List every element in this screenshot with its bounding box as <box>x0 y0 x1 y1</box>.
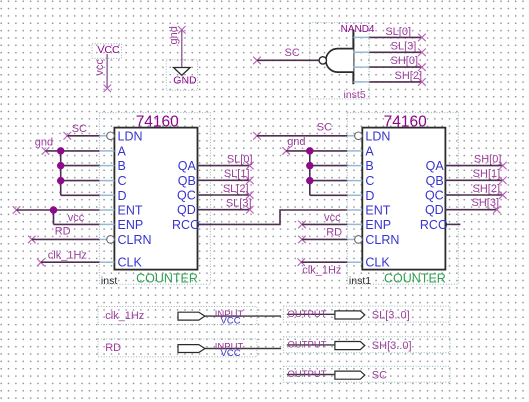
nand gate inst5 (NAND4, mirrored) <box>310 23 375 101</box>
svg-text:C: C <box>365 174 374 188</box>
node RD at U2 CLRN <box>298 226 347 243</box>
junction dot U1 A <box>57 147 64 155</box>
output pin SL[3..0] <box>283 306 450 322</box>
output pin SH[3..0] <box>283 337 450 353</box>
svg-text:SC: SC <box>372 370 387 382</box>
node RD at U1 CLRN <box>28 226 99 244</box>
input pin RD <box>98 339 281 359</box>
svg-text:VCC: VCC <box>97 44 120 56</box>
svg-text:OUTPUT: OUTPUT <box>288 369 327 380</box>
svg-text:RCO: RCO <box>172 218 200 232</box>
svg-text:SL[1]: SL[1] <box>224 168 250 180</box>
svg-text:inst5: inst5 <box>344 89 366 101</box>
svg-text:NAND4: NAND4 <box>341 24 375 35</box>
svg-text:A: A <box>118 144 127 158</box>
junction dot U1 ENT <box>50 206 58 214</box>
svg-text:QC: QC <box>177 189 196 203</box>
svg-text:SL[3..0]: SL[3..0] <box>372 310 410 322</box>
node clk_1Hz at U1 CLK <box>37 249 99 266</box>
node SH[0] wire at NAND input 3 <box>369 55 425 71</box>
svg-text:B: B <box>118 159 126 173</box>
wire U1 RCO to U2 ENT <box>198 210 348 224</box>
svg-text:CLRN: CLRN <box>365 233 399 247</box>
svg-text:ENP: ENP <box>118 218 144 232</box>
svg-text:SH[0]: SH[0] <box>474 153 502 165</box>
node SH[2] at U2 QC <box>445 183 506 199</box>
svg-text:vcc: vcc <box>68 212 85 224</box>
node SL[1] at U1 QB <box>198 168 254 184</box>
svg-text:CLRN: CLRN <box>118 233 152 247</box>
svg-text:ENT: ENT <box>365 204 390 218</box>
svg-text:SH[2]: SH[2] <box>472 183 500 195</box>
junction dot U1 B <box>57 162 64 170</box>
wire U2 pin B <box>310 165 348 167</box>
svg-text:VCC: VCC <box>221 316 241 327</box>
svg-text:ENP: ENP <box>365 218 391 232</box>
svg-text:SC: SC <box>72 123 87 135</box>
node SH[3] at U2 QD <box>445 197 500 214</box>
svg-text:A: A <box>365 144 374 158</box>
svg-text:gnd: gnd <box>35 137 53 149</box>
svg-text:RCO: RCO <box>420 218 448 232</box>
svg-text:LDN: LDN <box>118 129 143 143</box>
node SL[3] wire at NAND input 2 <box>369 41 425 57</box>
svg-text:gnd: gnd <box>287 136 305 148</box>
node gnd at U2 A <box>282 136 347 155</box>
svg-text:vcc: vcc <box>324 212 341 224</box>
svg-text:VCC: VCC <box>221 348 241 359</box>
node vcc at U2 ENP <box>298 212 347 228</box>
wire U1 pin C <box>61 180 100 182</box>
node SH[1] at U2 QB <box>445 168 506 184</box>
svg-text:vcc: vcc <box>94 59 106 76</box>
wire U1 ENP (vcc net) <box>54 210 100 224</box>
svg-text:inst1: inst1 <box>349 275 371 287</box>
svg-text:GND: GND <box>173 74 197 86</box>
svg-text:gnd: gnd <box>168 26 180 44</box>
svg-text:SL[2]: SL[2] <box>223 183 249 195</box>
counter U2 74160 (inst1) symbol body <box>347 113 460 287</box>
svg-text:SH[3..0]: SH[3..0] <box>372 340 412 352</box>
svg-text:SL[0]: SL[0] <box>385 26 411 38</box>
node SC at U2 LDN <box>253 121 347 139</box>
svg-text:clk_1Hz: clk_1Hz <box>105 310 144 322</box>
node SL[0] at U1 QA <box>198 153 254 169</box>
svg-text:COUNTER: COUNTER <box>136 271 198 285</box>
wire U2 RCO stub <box>445 223 460 225</box>
svg-text:inst: inst <box>101 275 117 287</box>
svg-text:SH[3]: SH[3] <box>471 197 499 209</box>
svg-text:RD: RD <box>105 342 121 354</box>
svg-text:SH[1]: SH[1] <box>473 168 501 180</box>
junction dot U1 C <box>57 177 64 185</box>
wire U1 pin D <box>61 194 100 196</box>
svg-text:OUTPUT: OUTPUT <box>288 340 327 351</box>
svg-text:QD: QD <box>177 203 196 217</box>
junction dot U2 B <box>306 162 314 170</box>
svg-text:SC: SC <box>285 47 300 59</box>
svg-text:QD: QD <box>425 203 444 217</box>
svg-text:SC: SC <box>317 121 332 133</box>
input pin clk_1Hz <box>98 307 281 327</box>
svg-text:D: D <box>365 189 374 203</box>
svg-text:RD: RD <box>55 226 71 238</box>
svg-text:QA: QA <box>178 159 197 173</box>
svg-text:CLK: CLK <box>365 256 390 270</box>
svg-text:COUNTER: COUNTER <box>384 271 446 285</box>
svg-text:OUTPUT: OUTPUT <box>288 309 327 320</box>
svg-text:B: B <box>365 159 373 173</box>
ground symbol GND (top) <box>166 26 197 90</box>
wire gnd bus vertical U1 <box>60 151 62 195</box>
wire U1 ENT with dangling X <box>13 206 100 214</box>
counter U1 74160 (inst) symbol body <box>99 113 212 287</box>
svg-text:QB: QB <box>426 174 444 188</box>
power symbol VCC (top-left) <box>92 44 122 92</box>
node gnd at U1 A <box>35 137 100 155</box>
node SH[0] at U2 QA <box>445 153 506 169</box>
svg-text:SL[3]: SL[3] <box>391 41 417 53</box>
node SL[0] wire at NAND input 1 <box>369 26 425 41</box>
svg-text:SL[0]: SL[0] <box>227 153 253 165</box>
svg-text:QC: QC <box>425 189 444 203</box>
svg-text:QB: QB <box>178 174 196 188</box>
wire U1 pin B <box>61 165 100 167</box>
svg-text:RD: RD <box>326 226 342 238</box>
svg-text:LDN: LDN <box>365 129 390 143</box>
node SC (wire to NAND output) <box>253 47 319 64</box>
junction dot U2 A <box>306 147 314 155</box>
node SL[3] at U1 QD <box>198 198 254 214</box>
svg-text:CLK: CLK <box>118 256 143 270</box>
svg-text:ENT: ENT <box>118 204 143 218</box>
svg-text:D: D <box>118 189 127 203</box>
wire U2 pin C <box>310 180 348 182</box>
wire gnd bus vertical U2 <box>309 151 311 195</box>
node SC at U1 LDN <box>64 123 100 139</box>
node SL[2] at U1 QC <box>198 183 254 199</box>
wire U2 pin D <box>310 194 348 196</box>
svg-text:SL[3]: SL[3] <box>226 198 252 210</box>
junction dot U2 C <box>306 177 314 185</box>
svg-text:SH[2]: SH[2] <box>394 70 422 82</box>
output pin SC <box>283 366 450 382</box>
svg-text:QA: QA <box>426 159 445 173</box>
svg-text:clk_1Hz: clk_1Hz <box>48 249 87 261</box>
node clk_1Hz at U2 CLK <box>298 258 348 276</box>
svg-text:clk_1Hz: clk_1Hz <box>302 265 341 277</box>
svg-text:C: C <box>118 174 127 188</box>
node SH[2] wire at NAND input 4 <box>369 70 425 86</box>
svg-text:SH[0]: SH[0] <box>390 55 418 67</box>
